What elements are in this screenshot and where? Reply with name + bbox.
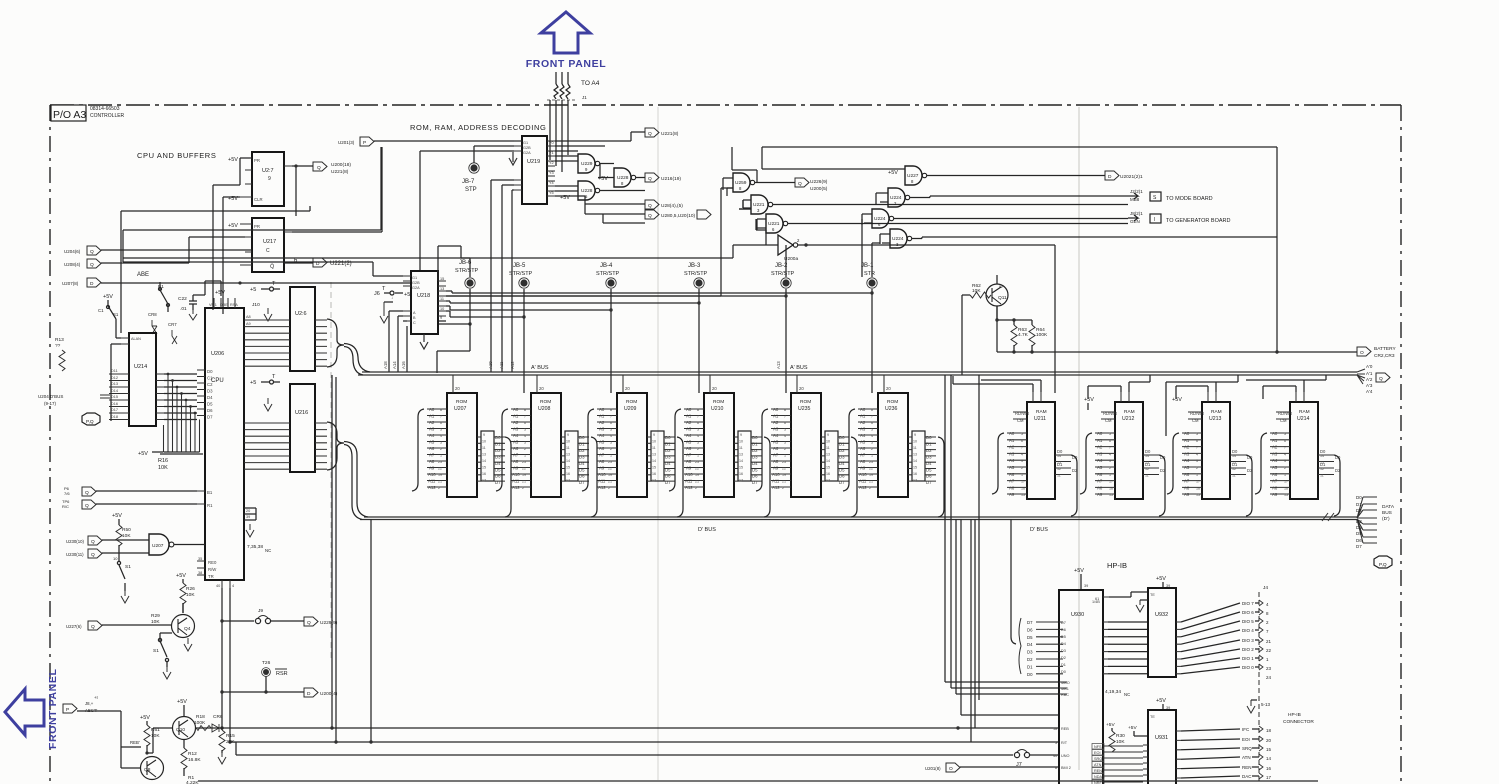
svg-text:REN: REN — [1242, 765, 1252, 770]
svg-text:JB-7: JB-7 — [462, 179, 475, 185]
svg-text:J2(2)1: J2(2)1 — [1130, 189, 1143, 194]
svg-text:U2:6: U2:6 — [295, 311, 307, 317]
svg-text:EOI: EOI — [1094, 751, 1101, 755]
svg-text:21: 21 — [1266, 639, 1272, 644]
nand gate U228a — [578, 181, 600, 200]
svg-text:ROM: ROM — [887, 399, 898, 405]
svg-text:GEN: GEN — [1130, 219, 1140, 224]
D stub brace — [1019, 618, 1021, 674]
D stubs into U930 — [1027, 620, 1059, 677]
wires hex to gate — [102, 540, 205, 553]
svg-text:14: 14 — [1266, 756, 1272, 761]
buffer U216 — [244, 384, 327, 472]
svg-text:P,Q: P,Q — [86, 419, 94, 425]
svg-text:J8,+: J8,+ — [85, 701, 94, 706]
svg-text:U206: U206 — [211, 351, 224, 357]
ROM data elbows to D bus — [505, 437, 944, 517]
svg-text:U211: U211 — [1034, 416, 1046, 422]
svg-text:ABE: ABE — [137, 272, 149, 278]
svg-text:D3: D3 — [1356, 519, 1362, 524]
svg-text:Y5: Y5 — [549, 191, 554, 195]
svg-text:D2: D2 — [1356, 508, 1362, 513]
svg-text:+I: +I — [94, 695, 98, 700]
long wire U218 y310 to JB-4 — [446, 306, 611, 310]
right gate U224b — [872, 209, 894, 228]
svg-text:U214: U214 — [134, 364, 147, 370]
svg-text:U230(10): U230(10) — [66, 539, 84, 544]
ROM U209 — [597, 375, 675, 497]
+5V 2 U931 — [1128, 725, 1148, 736]
vertical wire x1052 — [1054, 245, 1056, 393]
svg-text:Q: Q — [91, 539, 95, 545]
wire U219 G left — [420, 151, 514, 271]
+5V U932 — [1156, 576, 1170, 588]
svg-text:CONTROLLER: CONTROLLER — [90, 113, 125, 119]
svg-text:ROM: ROM — [456, 399, 467, 405]
border frame dash-dot top — [50, 104, 1401, 106]
svg-text:U2:7: U2:7 — [262, 168, 274, 174]
svg-text:A14: A14 — [392, 361, 397, 369]
svg-text:D1: D1 — [1027, 664, 1033, 669]
svg-text:JB-5: JB-5 — [513, 263, 526, 269]
wire U220 out — [732, 147, 795, 183]
svg-text:ATN: ATN — [1094, 763, 1102, 767]
svg-text:Q: Q — [90, 262, 94, 268]
svg-text:+5V: +5V — [228, 157, 238, 163]
+5V Q10 collector — [177, 699, 187, 717]
svg-text:RE0: RE0 — [208, 560, 217, 565]
svg-text:Q: Q — [85, 503, 89, 509]
svg-text:U209: U209 — [624, 406, 637, 412]
wire left feeds — [446, 188, 733, 296]
svg-text:T26: T26 — [262, 660, 271, 666]
vertical wire ff d — [223, 197, 240, 314]
svg-text:I: I — [1154, 217, 1155, 223]
svg-text:+5V: +5V — [140, 715, 150, 721]
wire U224b out long — [894, 217, 1128, 220]
svg-text:U28(4),(5): U28(4),(5) — [661, 203, 683, 209]
svg-text:10K: 10K — [186, 592, 195, 598]
svg-text:J9: J9 — [258, 608, 263, 614]
svg-text:CPU AND BUFFERS: CPU AND BUFFERS — [137, 151, 216, 160]
svg-text:24: 24 — [1266, 675, 1272, 680]
off page hexagon PQ — [1374, 556, 1392, 568]
svg-text:R26: R26 — [186, 586, 195, 592]
svg-text:MB8: MB8 — [1130, 197, 1140, 202]
svg-text:STP: STP — [465, 187, 477, 193]
svg-text:Y2: Y2 — [549, 161, 554, 165]
svg-text:R15: R15 — [226, 733, 235, 739]
ground arrow J6 — [380, 302, 393, 323]
svg-text:DIO 4: DIO 4 — [1242, 628, 1254, 633]
svg-text:D5: D5 — [207, 402, 213, 407]
faint crease line — [330, 282, 332, 660]
svg-text:J4: J4 — [1263, 585, 1268, 591]
svg-text:A'3: A'3 — [1366, 383, 1373, 388]
svg-text:D7: D7 — [1061, 621, 1066, 625]
svg-text:↓: ↓ — [391, 295, 393, 300]
CR8 CR7 diodes — [148, 312, 177, 344]
svg-text:A'4: A'4 — [1366, 389, 1373, 394]
svg-text:P/O A3: P/O A3 — [53, 109, 86, 121]
svg-text:R30: R30 — [1116, 733, 1125, 739]
DIO fan wires — [1181, 603, 1240, 674]
svg-text:+5: +5 — [404, 292, 410, 298]
svg-text:D17: D17 — [111, 408, 118, 412]
svg-text:D5: D5 — [1061, 635, 1066, 639]
RAM data elbows down — [1071, 455, 1340, 516]
transistor Q11 — [986, 284, 1008, 306]
svg-text:17: 17 — [1266, 775, 1272, 780]
R18 CR6 — [194, 714, 223, 732]
U930 left lower pin wires into chip — [1059, 682, 1067, 694]
svg-text:IFC: IFC — [1242, 727, 1250, 732]
svg-text:D6: D6 — [1356, 538, 1362, 543]
long wire U218 y303 to JB-3 — [446, 301, 699, 303]
svg-text:D: D — [307, 691, 311, 697]
svg-text:RAM: RAM — [1036, 409, 1047, 415]
svg-text:U217: U217 — [263, 239, 276, 245]
svg-text:10K: 10K — [122, 533, 131, 539]
svg-text:13: 13 — [440, 287, 444, 291]
C22 cap — [178, 295, 197, 320]
front panel blue arrow top — [541, 12, 590, 53]
mid gate U221b — [766, 214, 788, 233]
svg-text:Q: Q — [307, 620, 311, 626]
R16 pullup ladder verticals — [160, 374, 203, 454]
svg-text:15: 15 — [1266, 747, 1272, 752]
svg-text:O: O — [1360, 350, 1364, 356]
hexagon U229(9) out — [304, 617, 338, 626]
svg-text:BUS: BUS — [1382, 510, 1392, 516]
wire strobe JB6 down — [438, 246, 470, 324]
R61 resistor — [140, 715, 160, 753]
JB-7 STP jack — [462, 163, 479, 193]
svg-text:Q11: Q11 — [998, 295, 1007, 301]
B1 switch — [158, 282, 170, 312]
J9 fuse — [222, 608, 304, 624]
svg-text:SRQ: SRQ — [1094, 757, 1102, 761]
hexagon U201(8) — [925, 763, 960, 772]
svg-text:D3: D3 — [207, 389, 213, 394]
wire U208 to U217 — [101, 237, 245, 263]
svg-text:Q8: Q8 — [144, 767, 151, 773]
CPU right pin box — [244, 508, 256, 520]
data bus line to brace — [1011, 519, 1016, 644]
svg-text:20: 20 — [1266, 738, 1272, 743]
vertical wire x1009 — [961, 295, 963, 375]
svg-text:R18: R18 — [196, 714, 205, 720]
svg-text:CONNECTOR: CONNECTOR — [1283, 719, 1314, 725]
RAM U214 — [1270, 392, 1341, 499]
svg-text:J1: J1 — [582, 95, 587, 100]
svg-text:C: C — [413, 321, 416, 325]
wires hex row2 — [585, 204, 645, 223]
junction ABE — [238, 281, 241, 284]
wire top rail to U227 — [762, 168, 905, 170]
RAM address elbows — [992, 433, 1267, 494]
svg-text:U208: U208 — [538, 406, 551, 412]
hexagon U230(10) — [66, 536, 102, 545]
faint scan line — [1078, 107, 1080, 770]
wire hexagon P right then down — [77, 711, 141, 747]
svg-text:+5V: +5V — [1156, 576, 1166, 582]
svg-text:D5: D5 — [1356, 531, 1362, 536]
down arrow U219 — [509, 152, 517, 165]
svg-text:08314-66503: 08314-66503 — [90, 106, 120, 112]
left small wires to U214 — [111, 329, 121, 421]
svg-text:A'2: A'2 — [1366, 377, 1373, 382]
svg-text:U208(4): U208(4) — [64, 262, 81, 267]
svg-text:R13: R13 — [55, 337, 64, 343]
wire U224 inputs — [862, 193, 890, 244]
wire to hexagon U200 — [222, 691, 304, 693]
svg-text:U932: U932 — [1155, 612, 1168, 618]
svg-text:10K: 10K — [158, 465, 168, 471]
svg-text:23: 23 — [1266, 666, 1272, 671]
border frame dash-dot right — [1400, 105, 1402, 784]
ROM bus entries left elbows — [412, 409, 855, 491]
svg-text:ROM: ROM — [540, 399, 551, 405]
svg-text:39: 39 — [1084, 584, 1088, 588]
svg-text:BATTERY: BATTERY — [1374, 346, 1396, 352]
svg-text:HP-IB: HP-IB — [1107, 561, 1127, 570]
svg-text:ALAN: ALAN — [131, 337, 141, 341]
svg-text:ROM: ROM — [800, 399, 811, 405]
svg-text:U218: U218 — [417, 293, 430, 299]
svg-text:D0: D0 — [1061, 670, 1066, 674]
svg-text:U207(8): U207(8) — [62, 281, 79, 286]
svg-text:ATN: ATN — [1242, 755, 1251, 760]
svg-text:U200(18): U200(18) — [331, 162, 351, 168]
svg-text:Q10: Q10 — [176, 727, 185, 733]
svg-text:Q: Q — [648, 176, 652, 182]
svg-text:U227(6): U227(6) — [66, 624, 82, 629]
svg-text:DIO 1: DIO 1 — [1242, 656, 1254, 661]
wires U930 to U932 — [1108, 622, 1148, 674]
wire strobe JB4 down — [610, 289, 612, 393]
svg-text:+5V: +5V — [228, 223, 238, 229]
svg-text:7/6: 7/6 — [64, 491, 70, 496]
svg-text:U214: U214 — [1297, 416, 1310, 422]
transceiver U932 — [1148, 588, 1181, 677]
svg-text:+5V: +5V — [176, 573, 186, 579]
bottom long wire — [198, 780, 1318, 782]
svg-text:U216: U216 — [295, 410, 308, 416]
svg-text:+5: +5 — [250, 380, 256, 386]
svg-text:D0: D0 — [207, 369, 213, 374]
svg-text:J10: J10 — [252, 302, 260, 308]
svg-text:NC: NC — [1124, 692, 1130, 697]
svg-text:D7: D7 — [1027, 620, 1033, 625]
loop wire big rectangle — [762, 147, 1277, 352]
wires U218 A B C inputs — [389, 311, 407, 372]
down arrow CPU right — [246, 524, 254, 537]
svg-text:Y1: Y1 — [549, 151, 554, 155]
A bus right labels — [1357, 364, 1373, 394]
strobe jack JB-6 — [455, 260, 479, 288]
wire hex U202 out — [1105, 171, 1143, 180]
svg-text:R/C: R/C — [62, 504, 69, 509]
svg-text:REB: REB — [1061, 727, 1069, 731]
output hexagon U226(9) — [795, 178, 828, 192]
resistor R62 — [962, 283, 991, 298]
svg-text:RSR: RSR — [276, 671, 288, 677]
svg-text:.01: .01 — [180, 306, 187, 312]
nand gate U207b — [149, 534, 174, 555]
svg-text:P: P — [66, 707, 69, 713]
svg-text:DIO 7: DIO 7 — [1242, 601, 1254, 606]
svg-text:A13: A13 — [776, 361, 781, 369]
wire Q8 base — [121, 747, 140, 768]
svg-text:+5V: +5V — [177, 699, 187, 705]
svg-text:D4: D4 — [207, 395, 213, 400]
svg-text:+5V: +5V — [215, 290, 225, 296]
svg-text:DIO 3: DIO 3 — [1242, 638, 1254, 643]
svg-text:100K: 100K — [194, 720, 206, 726]
R26 pullup — [176, 573, 195, 613]
svg-text:A11: A11 — [499, 361, 504, 369]
strobe jack JB-5 — [509, 263, 533, 288]
svg-text:??: ?? — [55, 343, 61, 349]
ground arrow below Q4 — [184, 638, 192, 651]
DIO arrows to connector — [1255, 600, 1272, 680]
wire JB7 up — [474, 146, 514, 163]
input hexagon U208(4) — [64, 259, 101, 268]
svg-text:G2A: G2A — [523, 151, 531, 155]
+5 T switch U216 — [250, 374, 280, 411]
svg-text:CR2,CR3: CR2,CR3 — [1374, 353, 1395, 359]
svg-text:D5: D5 — [1027, 635, 1033, 640]
svg-text:R16: R16 — [158, 458, 168, 464]
buffer U215 — [244, 287, 327, 371]
svg-text:TE: TE — [1150, 715, 1155, 719]
svg-text:39: 39 — [246, 515, 250, 519]
svg-text:Q: Q — [648, 131, 652, 137]
svg-text:+5: +5 — [250, 287, 256, 293]
svg-text:C1: C1 — [98, 308, 104, 313]
svg-text:D4: D4 — [1061, 642, 1066, 646]
svg-text:U931: U931 — [1155, 735, 1168, 741]
long wire y728 to HPIB — [196, 727, 1059, 729]
strobe jack JB-1 — [861, 263, 877, 288]
svg-text:D1: D1 — [1356, 502, 1362, 507]
svg-text:S1: S1 — [153, 648, 159, 654]
svg-text:5-13: 5-13 — [1261, 702, 1271, 707]
long wire y755 with J7 — [236, 742, 1013, 755]
svg-text:U235: U235 — [798, 406, 811, 412]
A bus vertical labels — [383, 361, 781, 369]
svg-text:U213: U213 — [1209, 416, 1222, 422]
svg-text:A8: A8 — [246, 315, 251, 319]
svg-text:+5V: +5V — [888, 170, 898, 176]
svg-text:A' BUS: A' BUS — [531, 365, 549, 371]
svg-text:U204(6): U204(6) — [64, 249, 81, 254]
svg-text:22: 22 — [1266, 648, 1272, 653]
svg-text:+5V: +5V — [1074, 568, 1084, 574]
svg-text:D0: D0 — [1027, 672, 1033, 677]
vertical wires below CPU — [222, 588, 230, 742]
junction JB6 elbow — [468, 322, 471, 325]
svg-text:S1: S1 — [125, 564, 131, 570]
svg-text:TO GENERATOR BOARD: TO GENERATOR BOARD — [1166, 218, 1231, 224]
svg-text:G2A: G2A — [412, 286, 420, 290]
control labels — [1242, 727, 1252, 779]
GPIB chip U930 — [1053, 590, 1109, 784]
svg-text:C: C — [266, 248, 270, 254]
+5 T switch U215 — [250, 281, 280, 321]
svg-text:J6: J6 — [374, 291, 380, 297]
transistor Q4 — [172, 615, 195, 638]
R29 label — [151, 613, 160, 625]
svg-text:40: 40 — [216, 584, 220, 588]
R30 resistor — [1106, 722, 1125, 752]
input hexagon U207(8) ABE — [62, 278, 101, 287]
ground arrow U218 — [420, 334, 428, 349]
output hexagon U221(8) top — [645, 128, 679, 137]
battery hexagon — [1357, 346, 1396, 359]
wire U204 to U217 — [101, 249, 252, 251]
svg-text:10: 10 — [440, 307, 444, 311]
svg-text:A12: A12 — [510, 361, 515, 369]
svg-text:STR/STP: STR/STP — [684, 271, 708, 277]
svg-text:10K: 10K — [972, 288, 981, 294]
buffer U215 out brace — [327, 319, 344, 367]
svg-text:D12: D12 — [111, 376, 118, 380]
wire U224c out long — [912, 237, 1277, 239]
svg-text:U930: U930 — [1071, 612, 1084, 618]
svg-text:Y4: Y4 — [549, 181, 554, 185]
DIO labels — [1242, 601, 1254, 670]
svg-text:Q: Q — [648, 203, 652, 209]
svg-text:U216(19): U216(19) — [661, 176, 681, 182]
svg-text:G1: G1 — [412, 276, 417, 280]
svg-text:4: 4 — [232, 584, 234, 588]
svg-text:U236: U236 — [885, 406, 898, 412]
svg-text:D4: D4 — [1356, 525, 1362, 530]
svg-text:D7: D7 — [1356, 544, 1362, 549]
control arrows — [1252, 726, 1272, 780]
svg-text:7,35,38: 7,35,38 — [247, 544, 263, 550]
svg-text:TO A4: TO A4 — [581, 80, 600, 87]
inverter U200a — [778, 235, 800, 262]
RAM U211 — [1007, 392, 1078, 499]
svg-text:W: W — [999, 284, 1003, 289]
svg-text:CR8: CR8 — [148, 312, 157, 317]
wire U224a out — [910, 196, 1128, 198]
ROM U210 — [684, 375, 762, 497]
strobe jack JB-2 — [771, 263, 795, 288]
svg-text:D3: D3 — [1061, 649, 1066, 653]
svg-text:D11: D11 — [111, 369, 118, 373]
border frame dash-dot left — [49, 105, 51, 784]
svg-text:R/W: R/W — [208, 567, 217, 572]
U931 fan wires — [1181, 729, 1240, 778]
wire Q4 to S1b — [160, 633, 172, 641]
svg-text:CR7: CR7 — [168, 322, 177, 327]
ROM U208 — [511, 375, 589, 497]
svg-text:STR/STP: STR/STP — [596, 271, 620, 277]
wire hex to Q4 base — [102, 624, 171, 626]
svg-text:HP-IB: HP-IB — [1288, 712, 1301, 718]
transceiver U931 — [1143, 710, 1181, 784]
svg-text:A9: A9 — [246, 322, 251, 326]
svg-text:U280,5,U20(10): U280,5,U20(10) — [661, 213, 696, 219]
svg-text:U200(4): U200(4) — [320, 691, 338, 697]
right gate U227 — [905, 166, 927, 185]
svg-text:O: O — [949, 766, 953, 772]
svg-text:4.7K: 4.7K — [1018, 332, 1029, 338]
